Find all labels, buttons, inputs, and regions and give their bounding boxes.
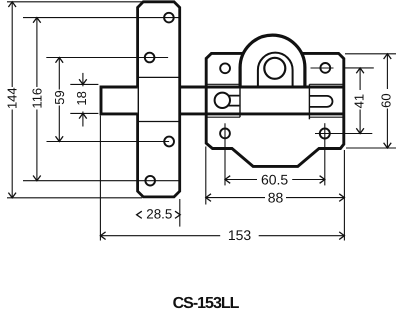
svg-text:60: 60 [378, 93, 393, 107]
svg-text:59: 59 [52, 90, 67, 104]
svg-text:18: 18 [74, 91, 89, 105]
svg-text:41: 41 [351, 94, 366, 108]
svg-text:28.5: 28.5 [146, 207, 172, 222]
svg-text:88: 88 [268, 190, 284, 206]
svg-text:60.5: 60.5 [261, 172, 288, 188]
svg-text:116: 116 [29, 88, 44, 109]
svg-text:153: 153 [228, 227, 252, 243]
svg-text:CS-153LL: CS-153LL [173, 295, 240, 312]
svg-text:144: 144 [5, 87, 20, 109]
